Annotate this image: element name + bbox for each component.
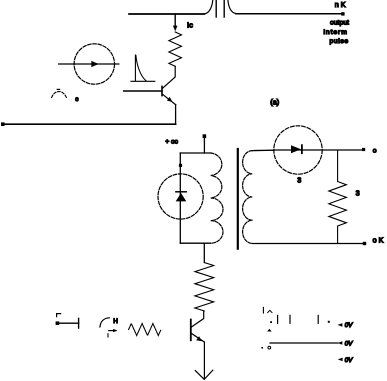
wire through diode xyxy=(274,149,363,151)
transistor Q2 emitter xyxy=(191,333,204,342)
wire collector Q1 xyxy=(162,66,175,88)
junction dot xyxy=(179,164,182,167)
timing tick 2 xyxy=(289,315,291,323)
diode D1 bar xyxy=(176,191,186,193)
corner mark xyxy=(57,314,61,317)
terminal output bottom xyxy=(363,242,366,245)
current source CS1 circle xyxy=(74,44,114,84)
probe wire xyxy=(57,322,79,324)
diode D2 xyxy=(291,145,301,153)
wire emitter Q2 vertical xyxy=(203,342,205,379)
svg-text:o: o xyxy=(373,148,377,155)
baseline long xyxy=(270,342,338,344)
wire top bar primary xyxy=(180,152,210,154)
probe terminal xyxy=(56,321,60,325)
arc fragment xyxy=(100,318,109,327)
arrowhead Ic xyxy=(173,26,178,32)
svg-text:0V: 0V xyxy=(345,341,353,348)
probe T bar xyxy=(78,318,80,328)
small arrow right xyxy=(109,330,114,332)
transformer T2 primary winding xyxy=(211,153,223,243)
wire top left horizontal xyxy=(129,13,204,15)
wire Ic drop xyxy=(174,14,176,27)
timing dot b xyxy=(328,321,330,323)
transformer T1 core xyxy=(215,0,217,17)
caret mark xyxy=(268,310,272,312)
diode D2 bar xyxy=(301,145,303,153)
diode circle U2 xyxy=(274,126,322,174)
timing tick 3 xyxy=(317,315,319,323)
svg-text:pulse: pulse xyxy=(330,38,349,45)
diode D1 xyxy=(176,193,187,201)
level arrow 1 xyxy=(338,323,343,327)
transformer T2 core xyxy=(237,149,239,249)
arrow open head down xyxy=(195,370,213,379)
transformer T2 secondary winding xyxy=(243,151,253,244)
svg-text:Ic: Ic xyxy=(187,20,193,29)
terminal left xyxy=(1,122,5,126)
diode circle U1 xyxy=(158,174,203,219)
svg-text:0V: 0V xyxy=(345,322,353,329)
wire bottom left horizontal xyxy=(3,123,176,125)
tick mark I xyxy=(262,307,264,313)
transistor Q1 emitter arrowhead xyxy=(167,97,173,102)
svg-text:3: 3 xyxy=(297,176,301,185)
terminal Vcc xyxy=(203,134,207,138)
svg-text:o K: o K xyxy=(373,235,384,244)
transistor Q1 emitter xyxy=(162,94,175,104)
svg-text:n K: n K xyxy=(335,0,346,9)
pulse waveform xyxy=(131,55,155,81)
transistor Q1 base bar xyxy=(161,86,163,95)
small dash below xyxy=(107,334,109,337)
wire left branch xyxy=(179,153,181,243)
wire secondary top xyxy=(252,149,274,151)
svg-text:(a): (a) xyxy=(270,97,279,106)
resistor R4 horizontal xyxy=(129,324,161,336)
transistor Q2 base bar xyxy=(190,320,192,341)
wire Vcc stub xyxy=(203,138,205,153)
small dot mark xyxy=(261,347,263,349)
wire collector Q2 xyxy=(191,311,204,327)
filled caret xyxy=(267,329,272,332)
resistor R1 xyxy=(169,32,182,66)
resistor R2 xyxy=(195,263,214,311)
terminal output top xyxy=(362,148,365,151)
current source CS1 wire xyxy=(59,63,119,65)
current source CS1 arrowhead xyxy=(91,61,99,67)
wire resistor drop xyxy=(203,243,205,262)
level arrow 2 xyxy=(338,341,343,345)
arc symbol top dash xyxy=(57,88,59,90)
wire base Q1 xyxy=(124,90,162,92)
svg-text:output: output xyxy=(330,20,349,27)
timing dot a xyxy=(270,321,272,323)
level arrow 3 xyxy=(338,358,343,362)
svg-text:H: H xyxy=(113,318,118,325)
transistor Q2 emitter arrowhead xyxy=(196,336,202,341)
wire bottom bar primary xyxy=(180,242,210,244)
svg-text:c: c xyxy=(75,96,78,103)
wire secondary bottom xyxy=(252,243,363,245)
svg-text:+ cc: + cc xyxy=(165,138,178,145)
resistor R3 xyxy=(329,150,347,244)
wire top right horizontal xyxy=(236,13,342,15)
transformer T1 right winding (cropped) xyxy=(228,0,236,14)
terminal node K top xyxy=(341,12,344,15)
small arrowhead right xyxy=(113,329,117,332)
svg-text:interm: interm xyxy=(324,29,348,36)
small circle mark xyxy=(268,346,271,349)
timing tick 1 xyxy=(277,315,279,323)
arc symbol xyxy=(52,92,67,98)
svg-text:0V: 0V xyxy=(345,357,353,364)
transformer T1 left winding (cropped) xyxy=(204,0,213,14)
svg-text:3: 3 xyxy=(356,189,360,198)
wire emitter vertical xyxy=(175,105,177,125)
